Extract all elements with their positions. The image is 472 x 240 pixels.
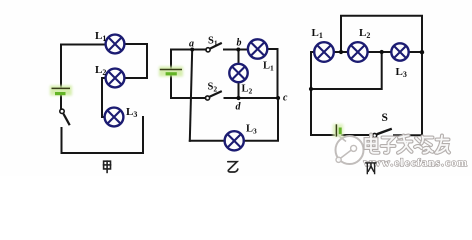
svg-text:www.elecfans.com: www.elecfans.com	[364, 157, 469, 169]
svg-text:b: b	[237, 38, 242, 49]
svg-text:S: S	[382, 112, 388, 124]
svg-text:a: a	[189, 39, 194, 50]
svg-text:c: c	[283, 93, 288, 104]
